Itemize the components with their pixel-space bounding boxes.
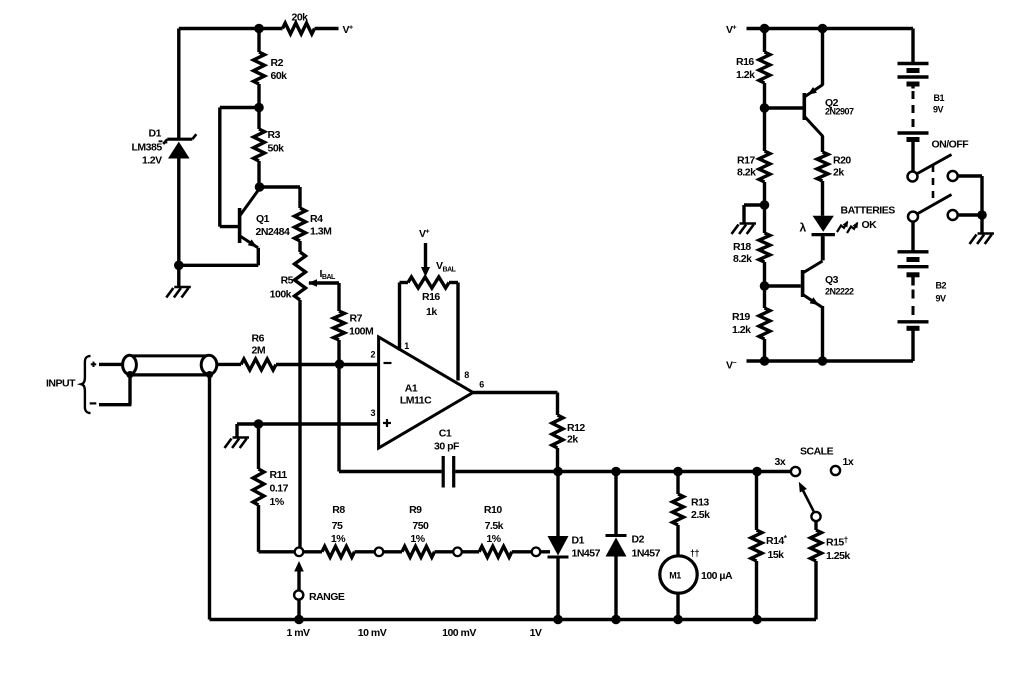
minus terminal: [90, 402, 97, 404]
ground: [233, 436, 250, 439]
svg-text:9V: 9V: [933, 105, 944, 115]
svg-text:2: 2: [371, 350, 376, 360]
wire: [297, 600, 300, 619]
svg-text:10 mV: 10 mV: [358, 627, 387, 639]
wire: [512, 550, 532, 553]
svg-text:Q1: Q1: [256, 213, 270, 225]
svg-text:0.17: 0.17: [270, 483, 289, 495]
node R14 bus junction: [752, 467, 762, 477]
svg-text:2N2484: 2N2484: [256, 226, 290, 238]
wire: [235, 424, 238, 437]
svg-text:15k: 15k: [768, 549, 785, 561]
svg-text:6: 6: [479, 380, 484, 390]
svg-text:D1: D1: [149, 128, 162, 140]
wire: [218, 108, 221, 227]
wire: [911, 29, 914, 64]
resistor R14: [755, 472, 758, 531]
svg-text:100 mV: 100 mV: [442, 627, 476, 639]
svg-text:R20: R20: [833, 155, 851, 167]
wire: [337, 283, 340, 311]
wire: [821, 236, 824, 260]
wire shield down: [208, 374, 211, 619]
wire: [556, 393, 559, 416]
potentiometer R16: [408, 277, 449, 288]
svg-text:R13: R13: [691, 497, 709, 509]
wire: [821, 236, 824, 260]
transistor Q2: [803, 93, 807, 120]
switch arm on/off A: [917, 155, 952, 175]
wire: [980, 215, 983, 233]
resistor R16 battery: [759, 52, 770, 83]
svg-text:M1: M1: [669, 571, 681, 581]
input brace: [81, 356, 90, 413]
wire: [260, 185, 301, 188]
svg-text:R16: R16: [422, 291, 440, 303]
wire: [763, 339, 766, 361]
wire: [763, 108, 766, 151]
node D2 bus junction: [611, 615, 621, 625]
node switch contact B: [948, 210, 958, 220]
svg-text:B1: B1: [934, 93, 945, 103]
op-amp A1: [379, 337, 473, 448]
svg-text:R9: R9: [409, 504, 422, 516]
resistor R7: [334, 311, 345, 340]
plus terminal: [91, 363, 96, 365]
svg-text:R6: R6: [252, 333, 265, 345]
node RANGE contact: [294, 590, 303, 599]
svg-text:1%: 1%: [486, 533, 501, 545]
svg-text:R17: R17: [737, 155, 755, 167]
svg-text:1.3M: 1.3M: [310, 226, 332, 238]
svg-text:60k: 60k: [271, 70, 288, 82]
svg-text:1.2k: 1.2k: [732, 324, 751, 336]
svg-text:R18: R18: [733, 241, 751, 253]
node 1V tap: [532, 548, 541, 557]
svg-text:1k: 1k: [426, 306, 437, 318]
wire: [257, 505, 260, 552]
resistor R6: [241, 359, 276, 370]
wire bottom bus: [210, 618, 817, 621]
svg-text:1.25k: 1.25k: [826, 550, 850, 562]
node switch ground junction: [977, 210, 987, 220]
svg-text:100k: 100k: [270, 289, 292, 301]
resistor R20: [817, 152, 828, 181]
LED arrow: [847, 223, 857, 233]
wire: [257, 424, 260, 469]
wire pin1: [398, 283, 401, 351]
svg-text:R4: R4: [310, 213, 323, 225]
svg-text:100 µA: 100 µA: [701, 570, 733, 582]
wire: [540, 550, 550, 553]
svg-text:R16: R16: [736, 56, 754, 68]
ground: [740, 222, 757, 225]
node D1 bus junction: [553, 615, 563, 625]
ground: [978, 232, 995, 235]
resistor R15: [811, 530, 822, 561]
shielded cable: [130, 354, 210, 357]
wire: [383, 550, 402, 553]
resistor R8: [322, 546, 355, 557]
node 100 mV tap: [453, 548, 462, 557]
diode D1 1N457: [556, 472, 559, 537]
wire: [911, 222, 914, 252]
wire: [958, 213, 982, 216]
switch link dashes: [932, 165, 935, 205]
node R2/R3 junction: [254, 103, 264, 113]
wire: [337, 340, 340, 365]
svg-text:R8: R8: [332, 504, 345, 516]
svg-text:LM11C: LM11C: [400, 395, 432, 407]
wire: [763, 29, 766, 53]
wire: [257, 108, 260, 130]
wire: [177, 29, 180, 140]
node meter bus junction: [673, 615, 683, 625]
svg-text:30 pF: 30 pF: [434, 441, 460, 453]
wire: [179, 264, 258, 267]
wire: [676, 472, 679, 495]
node range bus junction: [294, 615, 304, 625]
node D2 bus junction: [611, 467, 621, 477]
wire: [821, 306, 824, 361]
wire pin8: [456, 283, 459, 381]
svg-text:8.2k: 8.2k: [737, 167, 756, 179]
svg-text:2k: 2k: [567, 434, 578, 446]
svg-text:C1: C1: [439, 428, 452, 440]
wire: [217, 363, 241, 366]
wire: [435, 550, 454, 553]
node inverting input junction: [335, 359, 345, 369]
svg-text:2k: 2k: [833, 167, 844, 179]
wire: [400, 281, 409, 284]
wire: [220, 225, 239, 228]
svg-text:1x: 1x: [843, 456, 854, 468]
resistor R12: [552, 415, 563, 448]
wire Q2 base: [765, 106, 803, 109]
wire: [177, 265, 180, 286]
svg-text:BATTERIES: BATTERIES: [841, 205, 896, 217]
battery B1: [898, 62, 929, 65]
svg-text:50k: 50k: [268, 143, 285, 155]
svg-text:R7: R7: [350, 313, 363, 325]
wire: [276, 363, 379, 366]
resistor R2: [254, 52, 265, 84]
node R14 bus junction: [752, 615, 762, 625]
wire: [177, 159, 180, 266]
wire: [763, 83, 766, 108]
svg-text:2N2907: 2N2907: [825, 107, 854, 117]
wire: [449, 281, 458, 284]
svg-text:INPUT: INPUT: [46, 378, 76, 390]
svg-text:2M: 2M: [252, 345, 266, 357]
svg-text:1N457: 1N457: [632, 548, 661, 560]
node Q2 base junction: [760, 103, 770, 113]
wire top bus: [747, 27, 914, 30]
resistor R10: [479, 546, 512, 557]
svg-text:9V: 9V: [936, 294, 947, 304]
wire: [821, 181, 824, 216]
wire: [257, 29, 260, 53]
transistor Q1: [238, 208, 242, 243]
resistor R11: [253, 469, 264, 505]
node ground junction: [760, 200, 770, 210]
svg-text:††: ††: [690, 548, 700, 558]
wire: [911, 331, 914, 362]
balance arrow V+: [424, 243, 427, 267]
svg-text:2N2222: 2N2222: [825, 287, 854, 297]
wire: [814, 521, 817, 530]
wire: [298, 241, 301, 252]
diode D1 zener LM385: [167, 138, 192, 141]
wire: [821, 136, 824, 152]
resistor R4: [295, 208, 306, 241]
svg-text:R5: R5: [281, 275, 294, 287]
wire: [814, 561, 817, 620]
range arrow: [297, 568, 300, 590]
svg-text:1V: 1V: [530, 627, 542, 639]
node Q3 base junction: [760, 281, 770, 291]
wire: [556, 448, 559, 472]
resistor R3: [254, 129, 265, 161]
LED batteries ok: [813, 216, 834, 232]
wire: [259, 550, 295, 553]
svg-text:8.2k: 8.2k: [733, 253, 752, 265]
node 1x contact: [831, 466, 840, 475]
svg-text:A1: A1: [405, 383, 418, 395]
wire: [958, 174, 982, 177]
wire: [99, 403, 131, 406]
svg-text:Q3: Q3: [825, 274, 839, 286]
wire: [911, 142, 914, 172]
svg-text:1.2V: 1.2V: [142, 155, 162, 167]
svg-text:1%: 1%: [331, 533, 346, 545]
ground: [174, 286, 191, 289]
node: [818, 356, 828, 366]
svg-text:D1: D1: [572, 535, 585, 547]
svg-text:100M: 100M: [349, 326, 374, 338]
wire Q3 base: [765, 284, 801, 287]
wire: [99, 363, 124, 366]
wire: [763, 182, 766, 233]
wiper wire IBAL: [309, 281, 339, 284]
wire: [315, 27, 339, 30]
resistor R9: [402, 546, 435, 557]
meter M1: [660, 556, 697, 593]
svg-text:R11: R11: [270, 469, 288, 481]
switch arm on/off B: [917, 195, 952, 215]
svg-text:3: 3: [371, 408, 376, 418]
node 3x contact: [791, 467, 800, 476]
node R13 bus junction: [673, 467, 683, 477]
node R12 bus junction: [553, 467, 563, 477]
svg-text:ON/OFF: ON/OFF: [932, 139, 970, 151]
wire: [259, 27, 283, 30]
wire: [337, 365, 340, 472]
node switch contact A: [948, 171, 958, 181]
wire: [744, 203, 765, 206]
wire: [257, 248, 260, 265]
diode D2 1N457: [614, 472, 617, 536]
wire: [455, 470, 791, 473]
node pin3/R11 junction: [254, 419, 264, 429]
battery B2: [898, 250, 929, 253]
wire: [763, 286, 766, 308]
node switch pole B: [908, 212, 918, 222]
svg-text:SCALE: SCALE: [800, 446, 834, 458]
svg-text:1%: 1%: [270, 496, 285, 508]
wire output: [473, 391, 558, 394]
wire: [676, 525, 679, 556]
svg-text:2.5k: 2.5k: [691, 509, 710, 521]
wire: [980, 176, 983, 215]
wire: [298, 300, 301, 547]
wire: [355, 550, 375, 553]
svg-text:7.5k: 7.5k: [485, 520, 504, 532]
svg-text:λ: λ: [800, 221, 807, 235]
svg-text:1: 1: [404, 341, 409, 351]
wire: [303, 550, 322, 553]
node: [760, 24, 770, 34]
resistor R13: [673, 494, 684, 525]
wire: [128, 374, 131, 405]
svg-text:20k: 20k: [292, 12, 309, 24]
node 20k/R2 junction: [254, 24, 264, 34]
wire bottom bus battery: [747, 359, 914, 362]
wire: [763, 262, 766, 286]
wire: [462, 550, 479, 553]
resistor R17: [759, 151, 770, 182]
wire: [257, 161, 260, 187]
svg-text:1 mV: 1 mV: [286, 627, 310, 639]
node: [818, 24, 828, 34]
svg-text:R12: R12: [567, 422, 585, 434]
svg-text:1N457: 1N457: [572, 548, 601, 560]
svg-text:R2: R2: [271, 57, 284, 69]
resistor R19: [759, 308, 770, 339]
wire pin3: [237, 422, 379, 425]
svg-text:750: 750: [412, 520, 429, 532]
potentiometer R5: [295, 252, 306, 300]
svg-text:LM385: LM385: [132, 142, 163, 154]
wire: [257, 84, 260, 108]
svg-text:R19: R19: [732, 311, 750, 323]
svg-text:1%: 1%: [410, 533, 425, 545]
svg-text:8: 8: [464, 370, 469, 380]
svg-text:RANGE: RANGE: [309, 591, 345, 603]
svg-text:R3: R3: [268, 129, 281, 141]
capacitor C1: [442, 456, 445, 488]
wire: [676, 593, 679, 619]
switch arm scale: [802, 488, 815, 513]
wire: [179, 27, 259, 30]
wire: [742, 205, 745, 223]
node: [760, 356, 770, 366]
svg-text:1.2k: 1.2k: [736, 69, 755, 81]
svg-text:D2: D2: [632, 534, 645, 546]
wire: [220, 106, 259, 109]
wire: [339, 470, 442, 473]
resistor R18: [759, 233, 770, 262]
svg-text:R10: R10: [484, 504, 502, 516]
node scale pole: [811, 512, 820, 521]
node 10 mV tap: [375, 548, 384, 557]
LED arrow: [837, 222, 847, 232]
node 1 mV tap: [295, 548, 304, 557]
svg-text:3x: 3x: [775, 456, 786, 468]
wire: [298, 187, 301, 208]
svg-text:75: 75: [332, 520, 343, 532]
node switch pole A: [908, 172, 918, 182]
transistor Q3: [801, 270, 805, 297]
node R3/R4/Q1 junction: [255, 182, 265, 192]
node ground junction: [174, 261, 184, 271]
resistor 20k: [283, 23, 315, 34]
svg-text:B2: B2: [936, 281, 947, 291]
wire: [821, 29, 824, 86]
svg-text:OK: OK: [862, 219, 878, 231]
